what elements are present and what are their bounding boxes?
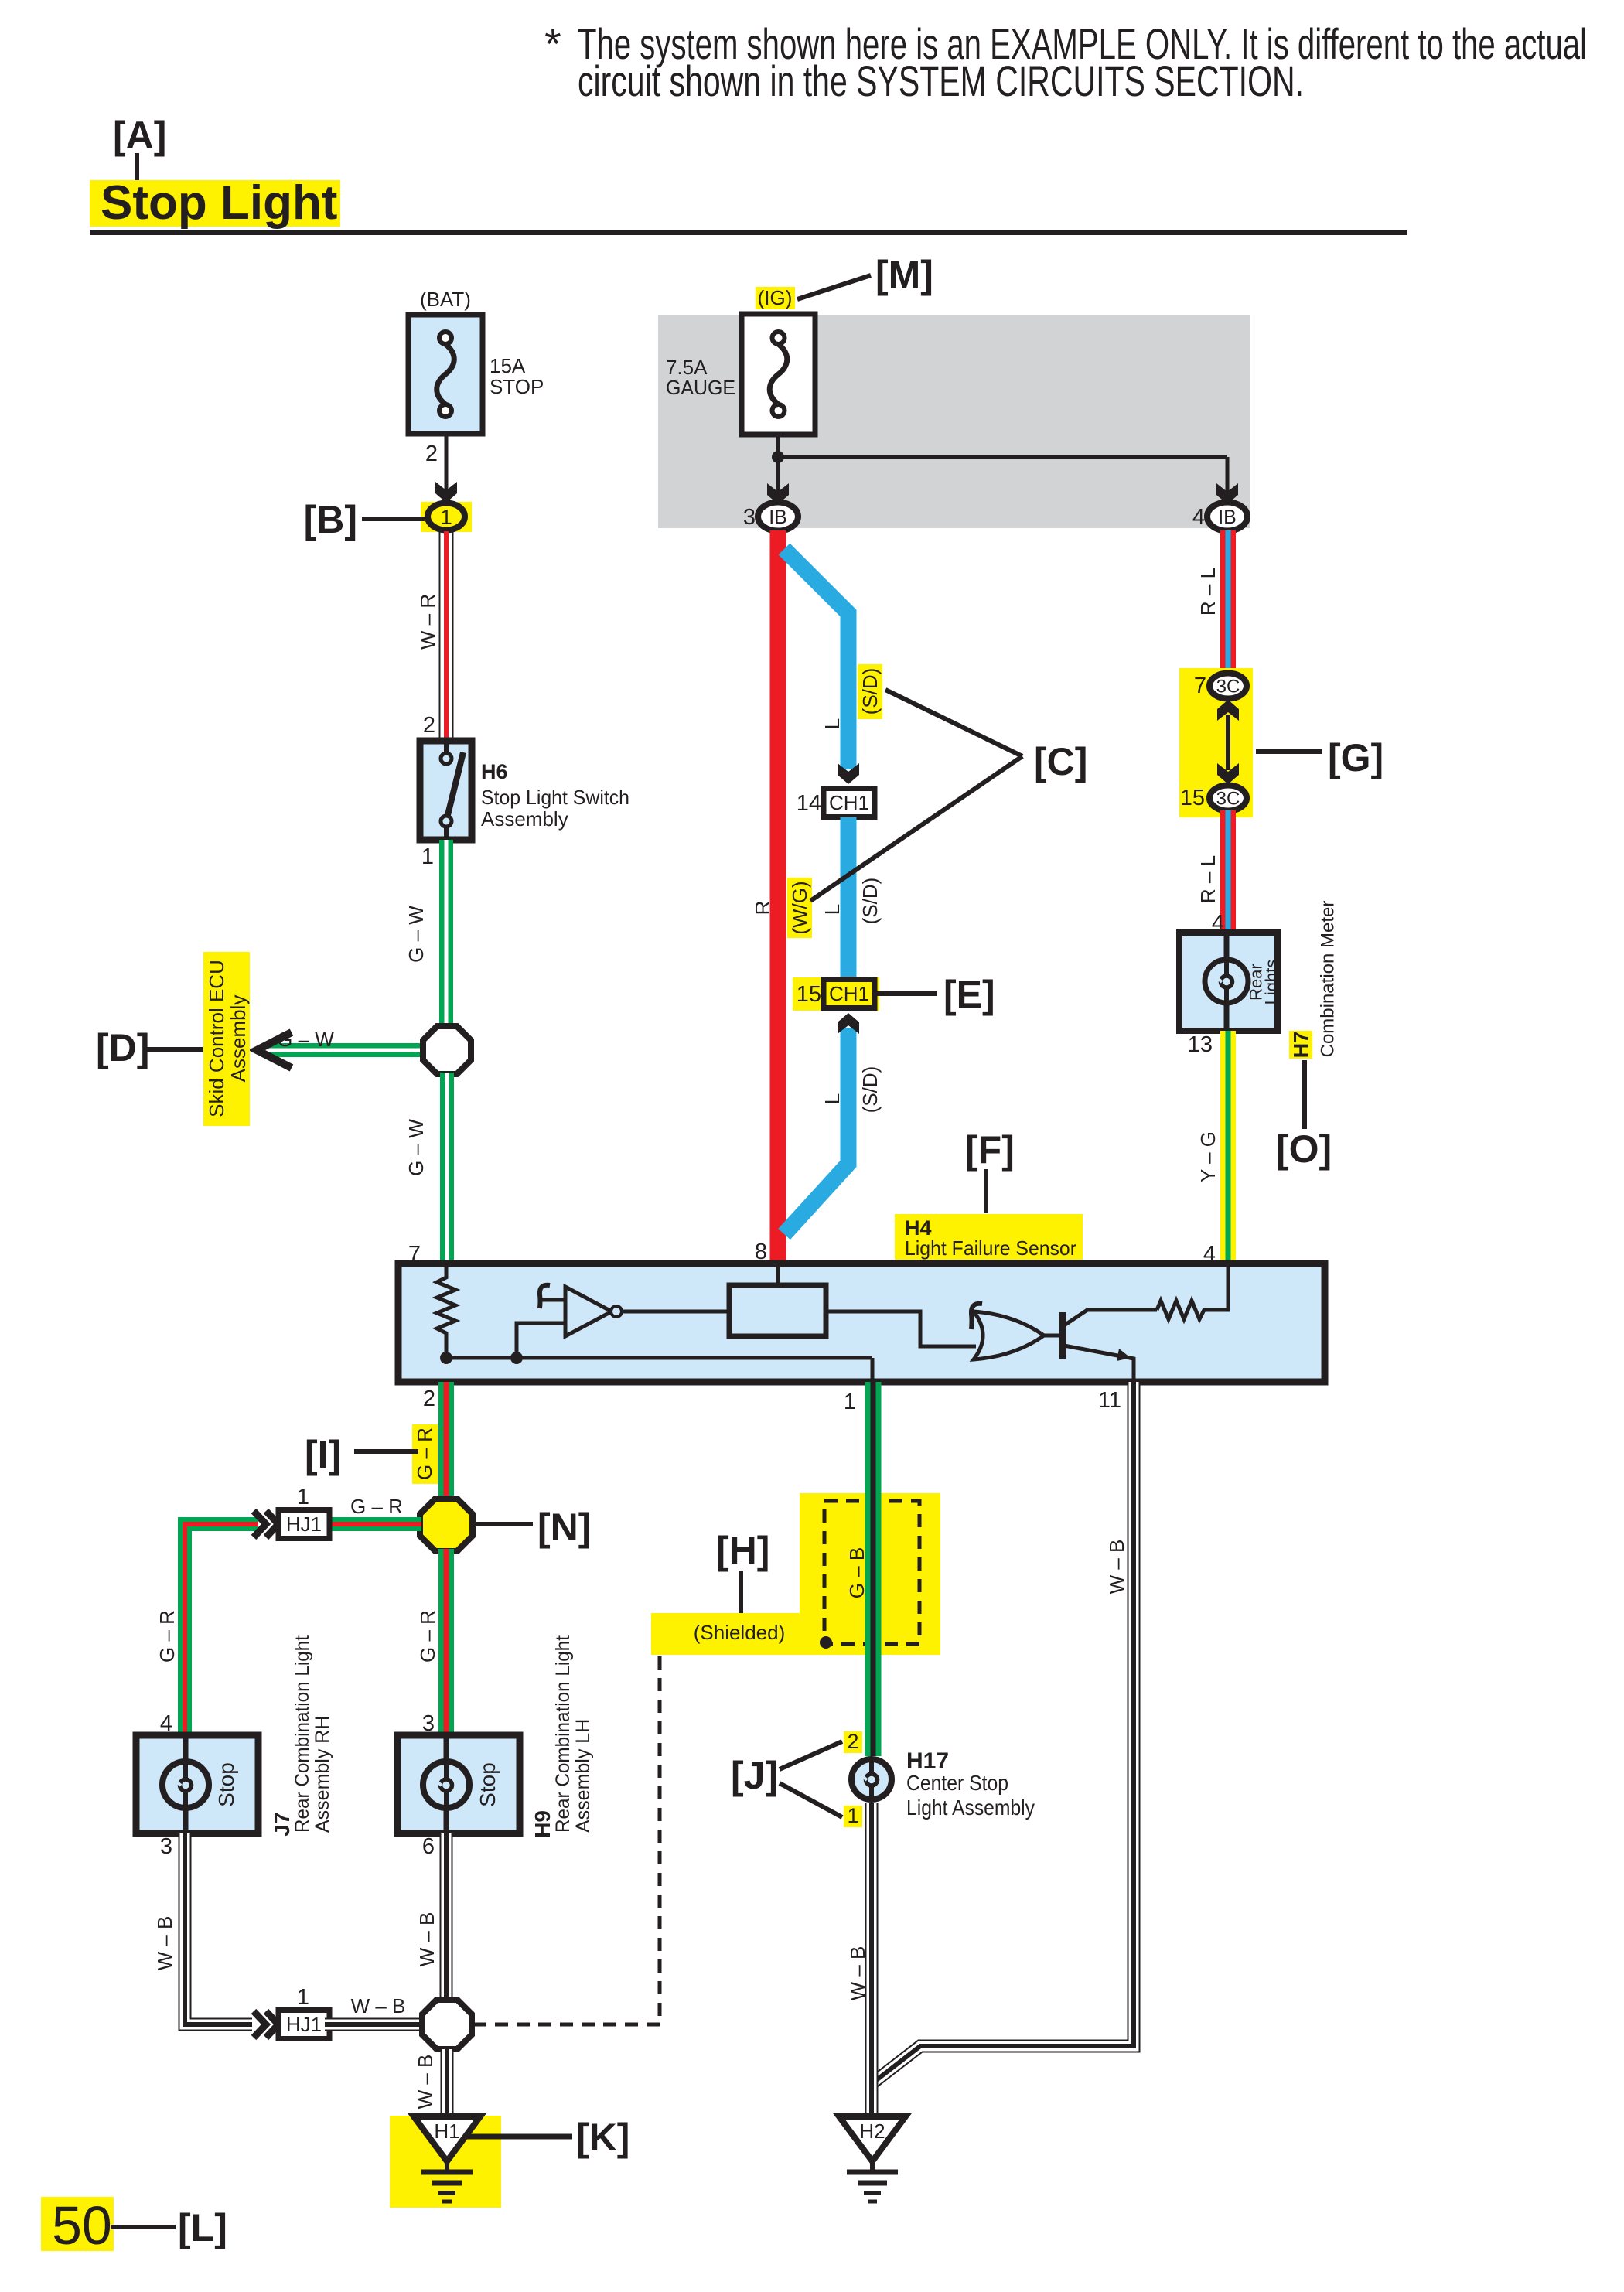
svg-text:HJ1: HJ1 [286,1513,322,1536]
svg-text:J7: J7 [270,1812,294,1836]
svg-text:1: 1 [847,1804,858,1827]
svg-text:2: 2 [847,1730,858,1753]
svg-text:3C: 3C [1216,788,1240,809]
svg-text:[J]: [J] [731,1754,778,1797]
svg-text:W – B: W – B [1105,1540,1128,1595]
svg-text:[K]: [K] [576,2116,629,2159]
svg-text:Assembly RH: Assembly RH [312,1716,333,1833]
svg-text:W – B: W – B [351,1994,406,2017]
svg-text:L: L [821,904,844,915]
svg-text:[L]: [L] [178,2206,227,2249]
svg-text:H9: H9 [531,1810,554,1838]
svg-text:L: L [821,718,844,729]
svg-text:1: 1 [421,844,434,869]
svg-text:[D]: [D] [96,1026,149,1069]
svg-text:CH1: CH1 [829,791,869,814]
svg-text:2: 2 [423,713,435,738]
svg-text:Assembly LH: Assembly LH [572,1719,594,1833]
svg-text:G – W: G – W [404,906,428,963]
svg-text:50: 50 [52,2195,112,2256]
svg-text:11: 11 [1098,1388,1121,1413]
svg-text:W – B: W – B [414,2055,437,2110]
svg-text:GAUGE: GAUGE [666,376,735,399]
svg-text:H2: H2 [859,2120,885,2143]
svg-text:W – R: W – R [416,594,439,650]
svg-text:[G]: [G] [1328,736,1383,779]
svg-text:H1: H1 [434,2120,459,2143]
svg-text:Rear Combination Light: Rear Combination Light [292,1635,313,1833]
svg-text:Stop Light Switch: Stop Light Switch [481,786,629,809]
svg-text:G – R: G – R [155,1610,179,1663]
svg-text:13: 13 [1188,1032,1213,1057]
svg-text:[F]: [F] [965,1128,1015,1172]
svg-text:8: 8 [755,1240,767,1264]
svg-text:W – B: W – B [415,1912,438,1967]
svg-text:Center Stop: Center Stop [906,1771,1008,1795]
svg-text:4: 4 [1192,505,1205,530]
svg-text:(S/D): (S/D) [858,668,882,715]
svg-text:Rear Combination Light: Rear Combination Light [552,1635,574,1833]
svg-text:1: 1 [440,505,452,529]
svg-text:(S/D): (S/D) [858,878,882,925]
svg-text:*: * [544,19,561,68]
svg-text:G – W: G – W [277,1028,334,1051]
svg-text:Stop: Stop [476,1762,500,1807]
svg-text:[H]: [H] [716,1529,769,1572]
svg-text:(BAT): (BAT) [420,288,471,311]
svg-text:IB: IB [769,506,787,528]
svg-text:1: 1 [844,1390,856,1414]
svg-text:H6: H6 [481,760,508,783]
svg-text:Y – G: Y – G [1196,1131,1220,1182]
svg-text:Lights: Lights [1262,960,1281,1005]
svg-text:Assembly: Assembly [481,807,568,831]
svg-text:15: 15 [1180,786,1205,810]
svg-text:[M]: [M] [875,253,933,296]
svg-text:Stop: Stop [214,1762,238,1807]
svg-text:[I]: [I] [305,1433,341,1476]
svg-text:[C]: [C] [1034,740,1087,783]
svg-text:G – B: G – B [845,1547,868,1598]
svg-text:[O]: [O] [1276,1127,1332,1171]
svg-text:3C: 3C [1216,676,1240,697]
svg-text:Light Assembly: Light Assembly [906,1796,1035,1820]
svg-text:W – B: W – B [153,1916,176,1971]
svg-text:[B]: [B] [304,498,357,541]
svg-text:Assembly: Assembly [227,995,250,1083]
svg-text:circuit shown in the SYSTEM CI: circuit shown in the SYSTEM CIRCUITS SEC… [578,56,1304,105]
svg-text:L: L [821,1093,844,1104]
svg-text:(IG): (IG) [758,286,793,309]
svg-text:(W/G): (W/G) [788,881,811,934]
svg-text:1: 1 [297,1985,309,2010]
svg-text:1: 1 [297,1485,309,1509]
svg-text:2: 2 [425,442,438,466]
svg-text:[A]: [A] [113,114,166,157]
svg-text:[N]: [N] [537,1506,591,1549]
svg-text:6: 6 [422,1834,435,1859]
svg-text:15A: 15A [490,354,526,377]
svg-text:R – L: R – L [1196,568,1220,616]
svg-text:14: 14 [797,791,821,816]
svg-text:HJ1: HJ1 [286,2013,322,2036]
svg-text:15: 15 [797,982,821,1007]
svg-text:IB: IB [1218,506,1237,528]
svg-text:Stop Light: Stop Light [101,176,337,230]
svg-text:G – R: G – R [416,1610,439,1663]
svg-text:Combination Meter: Combination Meter [1317,901,1338,1058]
svg-text:H7: H7 [1289,1032,1312,1059]
svg-text:W – B: W – B [846,1946,869,2001]
svg-text:[E]: [E] [943,973,995,1016]
svg-text:3: 3 [160,1834,172,1859]
svg-text:G – R: G – R [350,1495,403,1518]
svg-text:7: 7 [1194,674,1206,698]
svg-text:CH1: CH1 [829,982,869,1005]
svg-text:STOP: STOP [490,375,544,398]
svg-text:(S/D): (S/D) [858,1066,882,1114]
svg-text:G – W: G – W [404,1119,428,1176]
svg-text:R: R [751,901,774,916]
svg-text:(Shielded): (Shielded) [694,1621,786,1644]
svg-text:2: 2 [423,1386,435,1411]
svg-text:Light Failure Sensor: Light Failure Sensor [905,1236,1076,1260]
svg-text:Skid Control ECU: Skid Control ECU [205,960,228,1117]
svg-text:3: 3 [743,505,756,530]
svg-text:R – L: R – L [1196,855,1220,903]
